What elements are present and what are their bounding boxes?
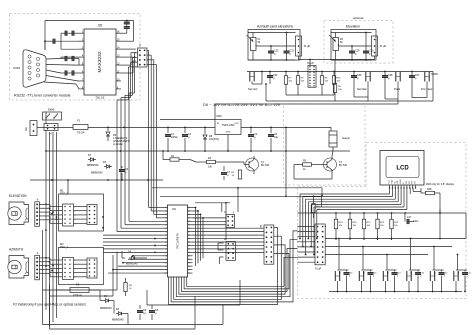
switch SWE Set Ele: [357, 72, 370, 92]
switch SW15 keypad: [430, 246, 447, 293]
svg-text:R28 only for 3.8" display: R28 only for 3.8" display: [426, 182, 455, 186]
svg-text:Set Azi: Set Azi: [248, 87, 258, 91]
switch SW16 keypad: [454, 254, 471, 293]
ELEVATION input connector: [8, 194, 29, 225]
wires above headers: [152, 187, 323, 264]
svg-text:or similar: or similar: [113, 143, 123, 146]
regulator VR1: [215, 114, 241, 135]
svg-text:MBR0540: MBR0540: [91, 171, 103, 175]
capacitor C34: [267, 71, 278, 82]
wires IC right fan: [193, 218, 265, 253]
capacitor C15 top: [124, 20, 130, 34]
ELEVATION wires: [39, 204, 87, 223]
svg-text:SW: SW: [411, 271, 413, 274]
resistor R28: [421, 188, 441, 214]
wire 5V down centre: [285, 127, 287, 197]
connector To uP (elevation): [372, 36, 387, 56]
capacitor C30: [363, 33, 374, 61]
svg-text:ELEVATION: ELEVATION: [9, 194, 27, 198]
resistor R3: [124, 278, 133, 296]
junction dots bundles: [45, 127, 125, 272]
transistor T2: [244, 156, 270, 174]
fuse F2: [56, 283, 100, 298]
svg-text:SW: SW: [340, 271, 342, 274]
elevation wires: [331, 32, 372, 61]
resistor R9: [320, 76, 329, 85]
svg-text:Azimuth (and elevation): Azimuth (and elevation): [257, 25, 293, 29]
pot P8: [329, 35, 344, 51]
module M1 REF_2: [59, 189, 104, 232]
optional dashed box: [324, 21, 393, 64]
svg-text:DIL 16: DIL 16: [96, 96, 105, 100]
capacitor C17: [404, 212, 419, 224]
resistor R2: [231, 170, 241, 179]
capacitor C5: [137, 305, 147, 320]
nested routing under IC: [169, 228, 298, 305]
IC U5 MAX3232: [84, 29, 116, 95]
capacitor C29: [349, 46, 360, 60]
capacitor C38: [382, 71, 393, 82]
diode D3: [112, 308, 128, 325]
AZIMUTH input connector: [8, 248, 29, 279]
svg-text:C13: C13: [421, 273, 424, 275]
svg-text:MBR0540: MBR0540: [112, 318, 124, 322]
svg-text:Set Ele: Set Ele: [357, 87, 367, 91]
svg-text:To µP: To µP: [304, 44, 311, 48]
resistor R6: [333, 60, 342, 101]
capacitor C12: [44, 33, 79, 49]
switch SW11 keypad: [335, 238, 352, 293]
calibration row bus: [247, 71, 433, 73]
svg-text:To µP: To µP: [380, 44, 387, 48]
capacitor C1: [165, 127, 178, 151]
svg-text:BC 546: BC 546: [261, 164, 270, 167]
connector J3 (2x4): [224, 238, 235, 260]
diode D7: [87, 154, 99, 167]
transil D5: [106, 127, 130, 146]
connector COM (DB9): [23, 50, 46, 87]
wire bundle vertical left: [46, 132, 68, 326]
svg-text:2200µ: 2200µ: [171, 136, 178, 139]
svg-text:C14: C14: [397, 273, 400, 275]
wires LCD bus: [299, 188, 421, 255]
svg-text:REF_2: REF_2: [60, 245, 69, 249]
svg-text:Uin: Uin: [24, 126, 28, 131]
diode D6: [91, 161, 112, 175]
wires IC left fan: [43, 208, 163, 297]
connector To uP (2x8 keypad): [315, 224, 325, 271]
beeper dashed box: [284, 104, 366, 186]
zener D8: [203, 127, 219, 151]
resistor R4: [196, 157, 244, 169]
U5 pins: [79, 31, 121, 90]
svg-text:optional: optional: [353, 16, 364, 20]
svg-text:C16: C16: [349, 273, 352, 275]
transistor T3: [322, 156, 348, 174]
capacitor C37: [409, 71, 420, 82]
svg-text:Elevation: Elevation: [346, 25, 360, 29]
switch SW6: [43, 108, 62, 136]
wires bottom long runs: [43, 230, 241, 329]
IC right vertical drops: [193, 207, 204, 266]
capacitor C32: [268, 46, 279, 60]
svg-text:To µP: To µP: [315, 268, 322, 271]
mid rail: [30, 179, 163, 181]
resistor R20: [348, 212, 357, 240]
svg-text:C12: C12: [444, 273, 447, 275]
ELEVATION header (1x6): [35, 198, 40, 227]
switch SW13 keypad: [383, 254, 400, 293]
keypad bottom bus: [329, 291, 462, 293]
svg-text:100n: 100n: [413, 220, 419, 223]
resistor R1: [162, 150, 196, 162]
capacitor C14: [61, 70, 79, 75]
svg-text:MBR0540: MBR0540: [126, 262, 138, 266]
junction dots module wires: [45, 203, 57, 274]
beeper BZ1: [329, 131, 350, 147]
connector J1 Uin: [24, 121, 37, 136]
wires from header b: [117, 50, 156, 231]
pot P1: [247, 35, 262, 51]
svg-text:Park: Park: [394, 87, 401, 91]
svg-text:SWPC: SWPC: [431, 73, 438, 76]
resistor R8: [296, 76, 305, 85]
capacitor C6: [149, 305, 159, 320]
svg-text:MBR0540: MBR0540: [87, 163, 99, 167]
switch SWPC Pot view: [421, 72, 438, 92]
svg-text:RS232 -TTL level converter mod: RS232 -TTL level converter module: [14, 94, 71, 98]
svg-text:AZIMUTH: AZIMUTH: [9, 248, 24, 252]
svg-text:SW: SW: [458, 271, 460, 274]
svg-text:U5: U5: [98, 24, 102, 28]
RS232-TTL level converter module box: [10, 14, 141, 101]
capacitor C36: [351, 71, 362, 82]
keypad top bus: [298, 212, 467, 214]
svg-text:T6.3A: T6.3A: [77, 131, 85, 135]
svg-text:R28: R28: [427, 188, 432, 191]
LCD dashed region: [298, 143, 467, 299]
resistor R11: [312, 196, 321, 218]
svg-text:SW: SW: [364, 271, 366, 274]
connector J2 (2x3): [224, 211, 235, 227]
svg-text:VR1: VR1: [216, 114, 222, 118]
capacitor C4: [268, 127, 279, 152]
diode D2: [100, 290, 114, 314]
svg-text:SW: SW: [435, 271, 437, 274]
svg-text:beeper: beeper: [342, 136, 350, 140]
wires keypad header left: [298, 227, 327, 263]
svg-text:MAX3232: MAX3232: [97, 51, 103, 72]
switch SWB Park: [394, 72, 401, 92]
LCD pins: [389, 185, 417, 189]
AZIMUTH header (1x6): [35, 251, 40, 280]
resistor R23: [390, 212, 399, 240]
capacitor C9: [119, 166, 129, 180]
svg-text:MBR0540: MBR0540: [100, 306, 112, 310]
svg-text:F2: F2: [76, 283, 80, 287]
svg-text:BC 546: BC 546: [339, 164, 348, 167]
capacitor C2: [182, 127, 192, 151]
fuse F1: [73, 119, 88, 135]
svg-text:10µ: 10µ: [274, 136, 279, 139]
svg-text:SW: SW: [388, 271, 390, 274]
diode D4: [122, 251, 147, 266]
capacitor C13: [61, 56, 79, 65]
svg-text:Vss: Vss: [389, 180, 391, 183]
resistor R7: [284, 76, 293, 85]
GND rail: [46, 131, 350, 152]
beeper wires: [294, 147, 333, 179]
svg-text:COM: COM: [13, 66, 21, 70]
keypad mid buses: [326, 209, 466, 255]
switch SW12 keypad: [359, 246, 376, 293]
svg-text:10V(5V1): 10V(5V1): [209, 138, 219, 141]
U6 pins left: [163, 207, 168, 275]
svg-text:R/W: R/W: [400, 180, 402, 184]
svg-text:C17: C17: [407, 216, 412, 219]
LCD pin labels: [389, 180, 417, 184]
svg-text:C15: C15: [373, 273, 376, 275]
connector To uP (azimuth): [296, 36, 311, 56]
connector P5 (2x8): [260, 224, 274, 264]
RS232 module wires: [44, 21, 136, 89]
azimuth wires: [248, 32, 296, 61]
svg-text:LCD: LCD: [396, 166, 409, 172]
svg-text:Vdd: Vdd: [391, 180, 393, 184]
svg-text:To µP: To µP: [307, 61, 314, 65]
svg-text:100mA: 100mA: [73, 293, 82, 297]
resistor R21: [362, 212, 371, 240]
resistor R19: [334, 212, 343, 240]
resistor R10: [332, 76, 341, 85]
LCD module: [380, 151, 424, 186]
capacitor C7: [221, 166, 231, 180]
row return wires: [215, 56, 433, 104]
svg-text:REF_2: REF_2: [60, 192, 69, 196]
resistor R22: [376, 212, 385, 240]
svg-text:F1: F1: [77, 119, 81, 123]
main supply wire: [37, 112, 215, 128]
U6 pins right: [188, 207, 193, 275]
capacitor C31: [284, 33, 295, 61]
capacitor C11: [61, 31, 79, 36]
switch SWA Set Azi: [248, 72, 258, 92]
svg-text:GND: GND: [226, 132, 231, 134]
capacitor C3: [248, 127, 258, 152]
svg-text:PIC16F876: PIC16F876: [176, 233, 180, 249]
IC U6 microcontroller: [168, 205, 188, 277]
svg-text:OUT: OUT: [234, 123, 239, 125]
svg-text:TSR1-2450: TSR1-2450: [222, 124, 235, 127]
5V rail: [241, 127, 331, 132]
connector b (2x4 header): [138, 48, 148, 67]
svg-text:C11: C11: [468, 273, 471, 275]
wire trimmer row to centre: [160, 104, 215, 120]
module M2 REF_2: [59, 242, 104, 285]
resistor R5: [294, 160, 322, 172]
AZIMUTH wires: [39, 258, 87, 277]
svg-text:U6: U6: [172, 207, 176, 211]
switch SW14 keypad: [407, 238, 424, 293]
svg-text:SW6: SW6: [48, 108, 55, 112]
